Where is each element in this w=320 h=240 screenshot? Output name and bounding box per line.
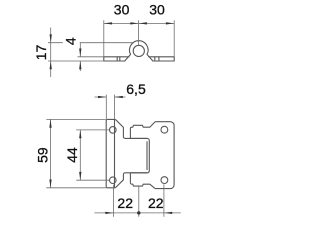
plan view: strip right edge [114,120,116,187]
plan view: left leaf strip [106,119,115,187]
hinge side view: leaf bar [104,57,174,61]
dimensions [46,20,181,217]
plan view: plate left edge lower [129,173,131,183]
arrow 17 top (outside, pointing down) [50,34,52,42]
hinge side view: knuckle hump outer [125,41,153,61]
dim 6,5 lines [95,96,126,98]
arrow 17 bottom (outside, pointing up) [50,61,52,69]
dim 44 extension lines [76,130,109,180]
dim 59 line [50,119,52,187]
arrow 59 top [49,119,51,127]
dot 22 middle [137,211,140,214]
svg-text:22: 22 [117,195,133,211]
dim 22/22 line [94,212,180,214]
plan view: bottom knuckle [115,173,147,188]
dim 44 line [79,130,81,180]
plan view: strip bottom hole [110,177,117,184]
arrow 22 left (outside, pointing right) [105,212,113,214]
plan view: U crank outer [130,138,149,172]
plan view: plate crank top edge with tab [130,122,155,129]
hinge side view: right tab ticks [155,57,159,61]
svg-text:30: 30 [149,1,165,17]
arrow 59 bottom [49,180,51,188]
arrow 44 bottom [79,172,81,180]
arrow 30 right [166,22,174,24]
arrow 30 middle pair [130,22,138,24]
svg-text:22: 22 [148,195,164,211]
dim 17 line [50,28,52,78]
plan view: plate left edge upper [129,129,131,139]
plan view: plate bottom hole [161,177,168,184]
svg-text:30: 30 [114,1,130,17]
plan view: strip top hole [110,127,117,134]
arrow 6,5 right (outside, pointing left) [115,96,123,98]
plan view: U crank inner bend line [146,141,148,170]
arrow 4 bottom (outside, pointing up) [79,61,81,69]
arrow 4 top (outside, pointing down) [79,49,81,57]
plan view: plate outline right part [155,122,174,189]
svg-text:4: 4 [62,37,78,45]
plan view: plate top hole [161,126,168,133]
dim 17/4 bottom extension [48,60,104,62]
dim 30/30 line [104,22,174,24]
svg-text:6,5: 6,5 [126,81,146,97]
dim 59 extension lines [46,119,106,187]
hinge side view: left tab ticks [117,57,120,61]
dim 30/30 extension lines [104,20,174,56]
dim 17 top extension [48,42,134,44]
arrow 30 left [104,22,112,24]
svg-text:17: 17 [33,45,49,61]
hinge side view: pin circle [133,45,144,56]
svg-text:44: 44 [64,147,80,163]
dim 4 top extension [78,56,104,58]
dim 6,5 extension lines [106,95,114,119]
dim 4 leader lines [79,43,81,71]
arrow 6,5 left (outside, pointing right) [98,96,106,98]
plan view: top knuckle [115,119,147,138]
plan view: plate crank bottom edge with tab [130,183,155,189]
arrow 44 top [79,130,81,138]
dim 22/22 extension lines [114,184,164,216]
arrow 22 right (outside, pointing left) [164,212,172,214]
svg-text:59: 59 [35,147,51,163]
